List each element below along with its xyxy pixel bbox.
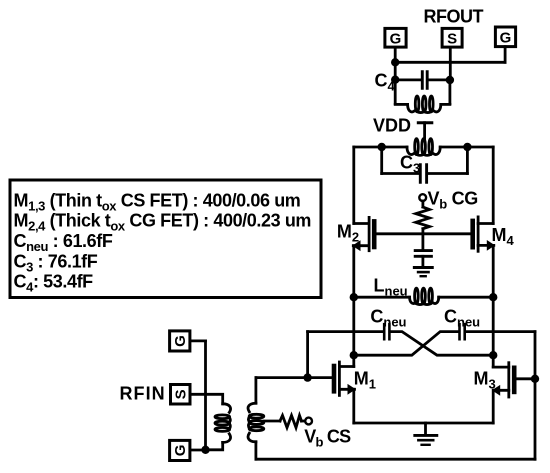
svg-text:RFIN: RFIN: [120, 384, 166, 404]
wire: right rail top (to M4 drain): [492, 147, 495, 224]
wire: M3 gate: [517, 377, 536, 380]
node: G1 junction: [391, 58, 399, 66]
wire: right vertical (M3 gate feed): [534, 332, 537, 460]
wire: resistor to terminal: [302, 420, 305, 423]
node: Lneu right: [489, 293, 497, 301]
node: primary right: [463, 143, 471, 151]
wire: source ground rail: [354, 422, 493, 425]
pad G (output left): [385, 28, 406, 47]
ground (sources): [424, 423, 427, 434]
svg-text:S: S: [447, 31, 457, 48]
resistor (CG bias): [416, 207, 430, 229]
pad S (input): [171, 385, 191, 405]
inductor: transformer primary (output lower coil): [407, 147, 413, 154]
node: C4 left: [391, 76, 399, 84]
wire: input ground vertical: [204, 341, 207, 450]
svg-text:C4: 53.4fF: C4: 53.4fF: [14, 272, 94, 295]
pad G (input bottom): [170, 440, 190, 460]
wire: M1 gate line: [256, 376, 334, 379]
node: M3 gate junction: [531, 375, 539, 383]
resistor (CS bias): [280, 415, 302, 427]
svg-text:G: G: [500, 30, 512, 47]
svg-text:Vb CS: Vb CS: [304, 426, 351, 449]
svg-text:VDD: VDD: [373, 116, 411, 136]
terminal Vb CS: [305, 418, 312, 425]
wire: M4 source to Lneu: [492, 245, 495, 297]
node: M1 drain / Cneu: [350, 351, 358, 359]
wire: S pad down: [449, 48, 452, 80]
wire: secondary center tap: [264, 420, 280, 423]
wire: bottom rail: [256, 458, 535, 461]
svg-text:RFOUT: RFOUT: [424, 6, 484, 26]
capacitor Cneu right + cross wire to M1 drain: [354, 332, 458, 356]
terminal Vb CG: [419, 194, 426, 201]
wire: C4 left down: [394, 80, 397, 104]
capacitor Cneu left + cross wire to M3 drain: [308, 330, 383, 333]
node: M1 gate junction: [303, 373, 311, 381]
svg-text:Vb CG: Vb CG: [428, 188, 478, 211]
wire: CG gate rail: [376, 232, 470, 235]
svg-text:G: G: [390, 31, 402, 48]
wire: ground bus G-G: [395, 61, 505, 64]
pad G (output right): [495, 27, 515, 47]
wire: M1 gate vertical to cap line: [306, 332, 309, 378]
parameter box: [10, 180, 321, 298]
wire: input bottom G to node: [190, 449, 206, 452]
svg-text:G: G: [172, 445, 189, 457]
wire: Vb CG down: [421, 201, 424, 207]
wire: secondary top to M1 gate: [254, 378, 257, 404]
wire: right rail Lneu to M3 drain: [492, 297, 495, 367]
pad G (input top): [170, 331, 190, 351]
inductor: input transformer secondary: [248, 403, 256, 412]
svg-text:S: S: [172, 389, 189, 399]
svg-text:G: G: [172, 335, 189, 347]
capacitor (CG bypass): [415, 249, 431, 252]
wire: M2 source to Lneu: [352, 246, 355, 298]
node: primary left: [378, 143, 386, 151]
capacitor C3 branch: [380, 147, 383, 174]
ground (CG bypass): [414, 266, 432, 269]
wire: resistor to gate rail: [421, 229, 424, 250]
wire: left rail top (to M2 drain): [352, 147, 355, 224]
wire: left G pad down: [394, 48, 397, 80]
wire: left rail Lneu to M1 drain: [352, 297, 355, 366]
node: C4 right: [446, 76, 454, 84]
wire: S to primary coil: [190, 394, 223, 404]
wire: M1 source down: [352, 389, 355, 423]
wire: C4 right down: [448, 80, 451, 104]
inductor: input transformer primary: [223, 404, 231, 413]
node: input ground junction: [201, 446, 209, 454]
wire: secondary bottom to bottom rail: [254, 442, 257, 459]
node: Lneu left: [350, 293, 358, 301]
inductor Lneu: [354, 296, 410, 299]
wire: transformer primary rail: [354, 146, 407, 149]
pad S (output): [442, 28, 462, 47]
wire: input top G to vertical: [190, 339, 206, 342]
VDD tap: [418, 121, 432, 124]
wire: primary bottom to ground node: [206, 442, 223, 449]
wire: M3 source down: [492, 390, 495, 423]
capacitor C4: [395, 79, 421, 82]
inductor: transformer secondary (output top coil): [395, 103, 407, 106]
wire: right G pad down: [504, 47, 507, 63]
wire: cap to ground: [421, 256, 424, 266]
node: M3 drain / Cneu: [489, 351, 497, 359]
